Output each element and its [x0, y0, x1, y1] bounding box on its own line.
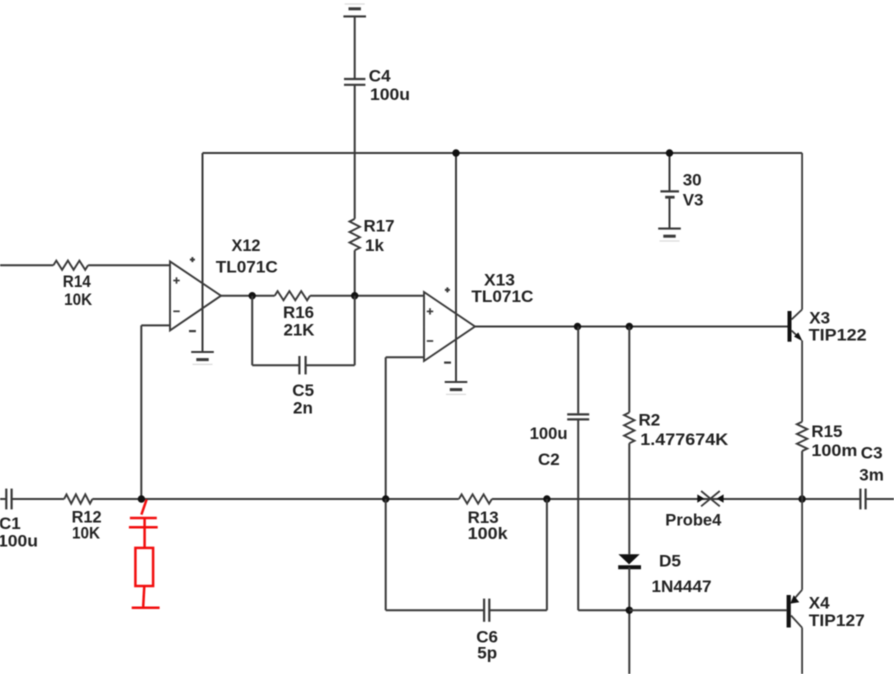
resistor R12: [64, 494, 92, 503]
resistor R16: [275, 291, 310, 300]
svg-text:1.477674K: 1.477674K: [640, 430, 729, 449]
svg-text:TIP122: TIP122: [809, 325, 867, 344]
svg-text:C5: C5: [292, 381, 314, 400]
svg-text:X4: X4: [809, 594, 830, 613]
wire C2 branch upper: [577, 327, 579, 414]
capacitor C1: [5, 489, 7, 510]
svg-text:10K: 10K: [72, 524, 101, 543]
wire ground to C4: [354, 16, 356, 79]
svg-text:21K: 21K: [284, 321, 316, 340]
junction R16/R17 node: [351, 292, 358, 299]
wire C4 to R17 (crosses +V rail): [354, 85, 356, 219]
svg-text:100u: 100u: [370, 85, 410, 104]
resistor R15: [797, 422, 807, 451]
svg-text:X12: X12: [232, 236, 261, 255]
capacitor C4: [344, 78, 365, 80]
highlighted red capacitor plate 2: [129, 526, 158, 529]
wire D5 to lower bus: [628, 567, 630, 674]
junction R15/X4 node: [798, 495, 805, 502]
junction rail/V3: [666, 149, 673, 156]
wire R12 to R13: [92, 498, 459, 500]
junction lower bus: [626, 607, 633, 614]
wire C1 to R12: [12, 498, 65, 500]
highlighted red capacitor plate 1: [130, 517, 157, 520]
capacitor C5: [298, 356, 300, 374]
ground below X13: [445, 381, 468, 383]
wire C2 branch lower: [577, 420, 579, 610]
svg-text:100m: 100m: [811, 441, 857, 460]
+V rail wire: [203, 152, 803, 154]
transistor X4 TIP127: [787, 595, 791, 628]
wire input to R14: [0, 264, 53, 266]
resistor R14: [53, 261, 88, 270]
wire C6 loop right: [489, 609, 547, 611]
svg-text:100u: 100u: [0, 532, 38, 551]
capacitor C2: [567, 413, 589, 415]
wire C6 loop left: [385, 499, 387, 610]
wire V3 to ground: [669, 197, 671, 228]
junction R2 branch: [626, 323, 633, 330]
svg-text:R14: R14: [63, 272, 91, 291]
junction X12 feedback node: [138, 495, 145, 502]
svg-text:C4: C4: [369, 67, 391, 86]
svg-text:2n: 2n: [293, 399, 313, 418]
svg-text:TIP127: TIP127: [809, 611, 865, 630]
transistor X3 TIP122: [788, 311, 792, 342]
wire rail to X13 V+ and V- to ground: [455, 153, 457, 382]
svg-text:R17: R17: [364, 217, 395, 236]
junction X13 feedback node: [382, 495, 389, 502]
highlighted red capacitor lead: [143, 518, 146, 526]
wire X13 inverting feedback: [386, 356, 424, 358]
wire C5 feedback loop right: [306, 364, 355, 366]
wire R15 to node: [801, 451, 803, 499]
op-amp X13: [424, 292, 475, 361]
svg-text:100k: 100k: [468, 524, 509, 543]
svg-text:R2: R2: [639, 411, 661, 430]
highlighted red resistor box: [135, 548, 153, 586]
resistor R2: [624, 413, 634, 444]
svg-text:C1: C1: [0, 514, 21, 533]
wire R2 branch upper: [628, 327, 630, 413]
main bus wire left: [0, 498, 6, 500]
svg-text:5p: 5p: [477, 644, 497, 663]
highlighted component red wire stub: [141, 500, 146, 515]
diode D5: [618, 554, 639, 564]
highlighted red ground bar: [132, 607, 160, 610]
svg-text:100u: 100u: [530, 424, 568, 443]
svg-text:R15: R15: [811, 422, 842, 441]
wire R14 to X12 noninverting input: [88, 264, 170, 266]
svg-text:1N4447: 1N4447: [652, 577, 712, 596]
wire V3 to rail: [669, 153, 671, 191]
svg-text:1k: 1k: [365, 236, 384, 255]
svg-text:10K: 10K: [64, 290, 93, 309]
wire R17 to node: [354, 250, 356, 295]
junction rail/X13: [452, 149, 459, 156]
svg-text:30: 30: [683, 171, 702, 190]
svg-text:V3: V3: [683, 191, 704, 210]
svg-text:D5: D5: [659, 552, 681, 571]
wire R16 to X13 input: [310, 295, 424, 297]
capacitor C6: [483, 599, 485, 622]
svg-text:Probe4: Probe4: [665, 511, 722, 530]
current probe Probe4: [701, 491, 720, 506]
ground at top of C4: [343, 15, 366, 17]
svg-text:TL071C: TL071C: [471, 287, 533, 306]
svg-text:3m: 3m: [859, 466, 884, 485]
svg-text:R16: R16: [283, 303, 314, 322]
junction X12 output: [249, 292, 256, 299]
wire X12 output row: [221, 295, 275, 297]
voltage source V3: [660, 190, 679, 192]
op-amp X12: [170, 261, 221, 330]
highlighted red wire to resistor box: [143, 527, 146, 548]
wire R13 to C3: [492, 498, 861, 500]
resistor R17: [350, 219, 360, 250]
junction C6 node: [543, 495, 550, 502]
wire C3 to right edge: [866, 498, 894, 500]
ground below X12: [191, 351, 214, 353]
svg-text:TL071C: TL071C: [216, 258, 278, 277]
junction C2 branch: [574, 323, 581, 330]
wire C5 feedback loop left: [251, 296, 253, 366]
capacitor C3: [859, 489, 861, 510]
svg-text:C3: C3: [861, 444, 883, 463]
wire X12 inverting input feedback: [141, 324, 170, 326]
wire R2 to D5: [628, 443, 630, 554]
highlighted red wire to ground bar: [143, 586, 144, 607]
wire rail to X12 V+ and V- to ground: [202, 153, 204, 352]
resistor R13: [459, 494, 492, 503]
ground below V3: [658, 228, 681, 230]
wire lower bus to X4 base: [629, 609, 786, 611]
wire X13 output row to X3 base: [475, 326, 788, 328]
svg-text:C2: C2: [538, 450, 560, 469]
